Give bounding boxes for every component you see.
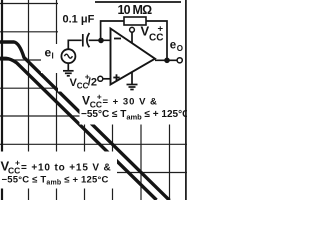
svg-text:I: I [52,52,54,61]
svg-text:= +10 to +15 V &: = +10 to +15 V & [21,163,112,174]
svg-text:e: e [170,40,176,52]
svg-text:= + 30 V &: = + 30 V & [103,97,158,108]
svg-text:O: O [177,44,183,53]
svg-text:10 MΩ: 10 MΩ [118,3,153,17]
svg-text:e: e [45,46,52,60]
svg-text:/2: /2 [88,77,97,89]
svg-text:+: + [15,158,20,168]
svg-text:CC: CC [77,82,89,91]
svg-text:+: + [97,92,102,102]
svg-text:0.1 μF: 0.1 μF [63,14,95,26]
svg-text:+: + [158,24,164,35]
